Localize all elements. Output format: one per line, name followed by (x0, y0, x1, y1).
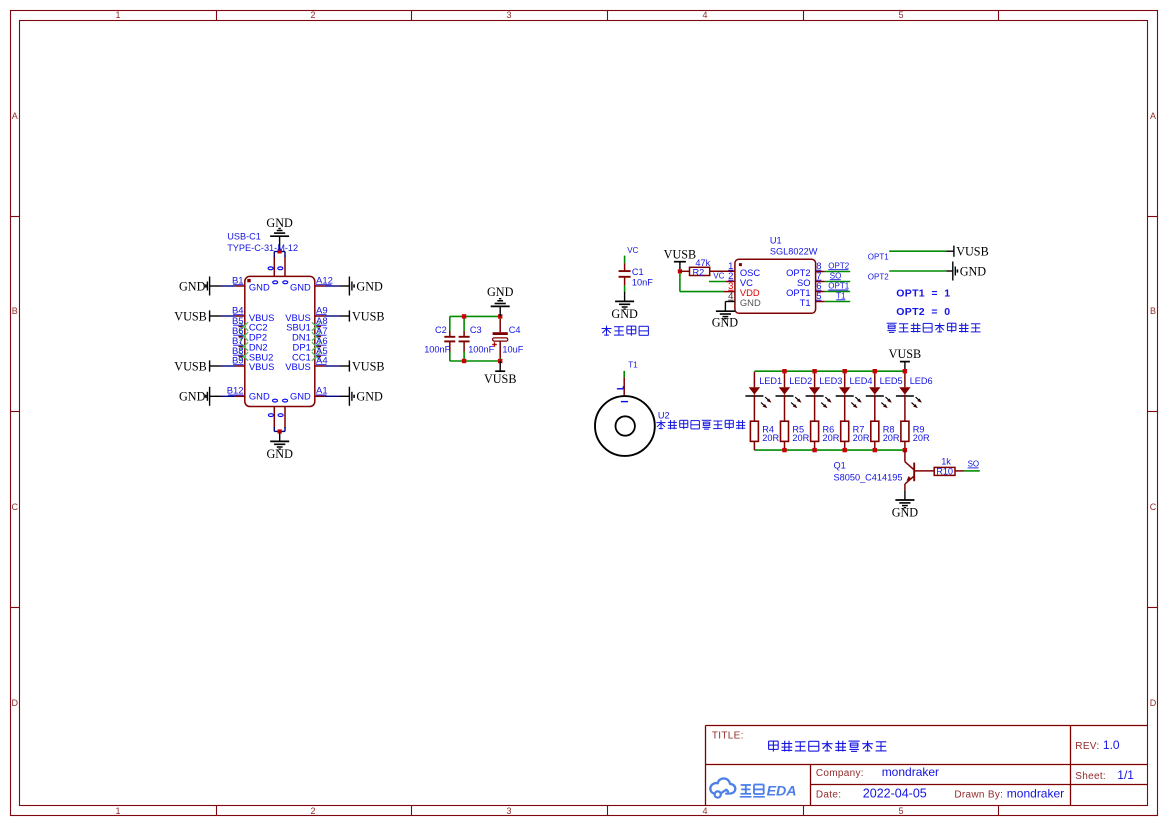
svg-text:LED5: LED5 (880, 376, 903, 386)
svg-text:VUSB: VUSB (352, 359, 385, 373)
svg-text:mondraker: mondraker (882, 765, 939, 779)
svg-text:20R: 20R (762, 433, 779, 443)
svg-text:100nF: 100nF (424, 345, 450, 355)
svg-text:VUSB: VUSB (664, 248, 697, 262)
svg-text:EDA: EDA (767, 783, 797, 799)
svg-text:5: 5 (898, 806, 903, 816)
svg-text:10nF: 10nF (632, 277, 653, 287)
svg-text:TYPE-C-31-M-12: TYPE-C-31-M-12 (227, 243, 298, 253)
svg-text:GND: GND (290, 390, 311, 401)
svg-text:C4: C4 (509, 325, 521, 335)
svg-text:2022-04-05: 2022-04-05 (863, 786, 927, 800)
svg-text:LED1: LED1 (759, 376, 782, 386)
svg-text:SO: SO (830, 271, 842, 280)
svg-text:LED6: LED6 (910, 376, 933, 386)
svg-text:4: 4 (702, 806, 707, 816)
svg-text:A: A (1150, 111, 1156, 121)
svg-text:U1: U1 (770, 236, 782, 246)
svg-text:VUSB: VUSB (352, 309, 385, 323)
svg-text:OPT2: OPT2 (828, 261, 849, 270)
svg-text:GND: GND (179, 279, 206, 293)
svg-text:C: C (11, 502, 18, 512)
svg-text:C2: C2 (435, 325, 447, 335)
svg-text:GND: GND (356, 279, 383, 293)
svg-text:GND: GND (960, 264, 987, 278)
svg-text:VBUS: VBUS (249, 361, 275, 372)
svg-text:mondraker: mondraker (1007, 786, 1064, 800)
svg-text:TITLE:: TITLE: (712, 730, 744, 741)
svg-text:C1: C1 (632, 267, 644, 277)
svg-text:D: D (11, 698, 18, 708)
svg-text:GND: GND (611, 307, 638, 321)
svg-text:OPT1: OPT1 (828, 282, 849, 291)
svg-text:VC: VC (713, 272, 724, 281)
svg-text:OPT2: OPT2 (868, 272, 889, 281)
svg-text:5: 5 (898, 10, 903, 20)
svg-text:GND: GND (290, 281, 311, 292)
svg-text:20R: 20R (883, 433, 900, 443)
svg-text:VUSB: VUSB (174, 359, 207, 373)
svg-text:LED3: LED3 (819, 376, 842, 386)
svg-text:GND: GND (487, 285, 514, 299)
svg-text:R10: R10 (936, 467, 953, 477)
svg-text:OPT2 = 0: OPT2 = 0 (896, 306, 950, 318)
svg-text:VUSB: VUSB (956, 245, 989, 259)
svg-text:B: B (12, 306, 18, 316)
svg-text:20R: 20R (792, 433, 809, 443)
svg-text:3: 3 (506, 10, 511, 20)
svg-text:1: 1 (115, 806, 120, 816)
svg-text:LED2: LED2 (789, 376, 812, 386)
svg-text:VUSB: VUSB (174, 309, 207, 323)
svg-text:4: 4 (702, 10, 707, 20)
svg-text:USB-C1: USB-C1 (227, 231, 261, 241)
svg-text:R2: R2 (693, 267, 705, 277)
svg-text:SGL8022W: SGL8022W (770, 247, 818, 257)
svg-text:GND: GND (249, 281, 270, 292)
svg-text:S8050_C414195: S8050_C414195 (834, 472, 903, 482)
svg-text:1/1: 1/1 (1117, 768, 1134, 782)
svg-text:GND: GND (266, 216, 293, 230)
svg-text:GND: GND (179, 390, 206, 404)
svg-text:D: D (1150, 698, 1157, 708)
svg-text:Date:: Date: (816, 789, 841, 800)
svg-text:T1: T1 (836, 291, 846, 300)
svg-text:GND: GND (266, 447, 293, 461)
svg-text:100nF: 100nF (468, 345, 494, 355)
svg-text:2: 2 (310, 806, 315, 816)
svg-text:LED4: LED4 (850, 376, 873, 386)
svg-text:VUSB: VUSB (889, 347, 922, 361)
svg-text:SO: SO (968, 460, 980, 469)
svg-text:U2: U2 (658, 411, 670, 421)
svg-text:1: 1 (115, 10, 120, 20)
svg-text:T1: T1 (800, 297, 811, 308)
svg-text:VBUS: VBUS (285, 361, 311, 372)
svg-text:Company:: Company: (816, 768, 864, 779)
svg-text:OPT1 = 1: OPT1 = 1 (896, 287, 950, 299)
svg-text:20R: 20R (913, 433, 930, 443)
svg-text:B: B (1150, 306, 1156, 316)
svg-text:VUSB: VUSB (484, 372, 517, 386)
svg-text:1k: 1k (941, 457, 951, 467)
svg-text:GND: GND (712, 316, 739, 330)
svg-text:A: A (12, 111, 18, 121)
svg-text:GND: GND (892, 506, 919, 520)
svg-text:Drawn By:: Drawn By: (954, 789, 1003, 800)
svg-text:GND: GND (249, 390, 270, 401)
svg-text:GND: GND (356, 390, 383, 404)
svg-text:Q1: Q1 (834, 460, 846, 470)
svg-text:2: 2 (310, 10, 315, 20)
svg-text:T1: T1 (628, 361, 638, 370)
svg-text:10uF: 10uF (502, 345, 523, 355)
svg-text:OPT1: OPT1 (868, 253, 889, 262)
svg-text:GND: GND (740, 297, 761, 308)
svg-text:20R: 20R (853, 433, 870, 443)
svg-text:C3: C3 (470, 325, 482, 335)
svg-text:C: C (1150, 502, 1157, 512)
svg-text:Sheet:: Sheet: (1075, 771, 1106, 782)
svg-text:3: 3 (506, 806, 511, 816)
svg-text:20R: 20R (823, 433, 840, 443)
svg-text:VC: VC (627, 246, 638, 255)
svg-text:1.0: 1.0 (1103, 738, 1120, 752)
svg-text:REV:: REV: (1075, 741, 1099, 752)
